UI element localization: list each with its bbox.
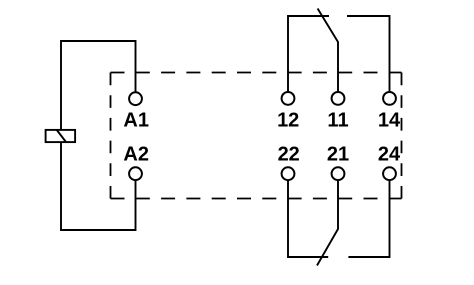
svg-text:24: 24 xyxy=(378,144,401,166)
svg-text:14: 14 xyxy=(378,109,401,131)
svg-text:A2: A2 xyxy=(123,144,149,166)
svg-text:12: 12 xyxy=(277,109,299,131)
svg-text:11: 11 xyxy=(327,109,348,131)
svg-text:A1: A1 xyxy=(123,109,149,131)
svg-text:21: 21 xyxy=(327,144,349,166)
svg-text:22: 22 xyxy=(278,144,300,166)
